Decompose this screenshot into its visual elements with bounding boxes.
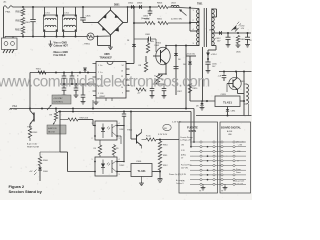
svg-text:NVM 754 SE: NVM 754 SE <box>27 147 40 149</box>
svg-text:Cabeza HOT: Cabeza HOT <box>54 45 69 48</box>
resistor R802 <box>21 18 24 26</box>
node rail right <box>189 7 191 9</box>
capacitor C810 <box>163 84 165 89</box>
resistor R908 <box>99 140 101 145</box>
ground bridge <box>110 46 112 48</box>
wire opto1 right <box>117 125 124 127</box>
wire R903 down <box>29 138 31 141</box>
svg-text:R805: R805 <box>157 19 163 21</box>
node W72 junctions <box>55 72 57 74</box>
svg-text:R9: R9 <box>50 115 52 117</box>
wire snubber row <box>134 22 145 24</box>
capacitor C825 <box>123 112 125 115</box>
ground C813 <box>247 43 249 45</box>
wire TL431 gnd <box>141 177 143 182</box>
wire T802 collector <box>165 46 167 49</box>
svg-text:Daiwoo D: Daiwoo D <box>176 183 184 185</box>
arrow to block2 <box>53 120 56 125</box>
resistor R808 <box>145 56 147 62</box>
wire opto2 to TL431 <box>117 171 131 173</box>
inductor L803 <box>171 5 179 7</box>
diode D894 <box>201 101 203 103</box>
node after diodes <box>149 6 151 8</box>
svg-text:R912: R912 <box>163 165 168 167</box>
optocoupler U901 <box>95 121 117 140</box>
wire bridge right to rail <box>123 22 128 24</box>
svg-text:T9: T9 <box>221 191 223 193</box>
svg-text:TL431: TL431 <box>223 101 232 105</box>
capacitor C815 <box>205 61 210 63</box>
wire rails into box <box>193 122 195 142</box>
svg-text:1: 1 <box>92 159 93 161</box>
ground C823 <box>75 94 77 96</box>
svg-text:13: 13 <box>121 71 123 73</box>
ground R812 <box>237 44 239 46</box>
wire +B vertical <box>189 56 191 101</box>
svg-text:C801: C801 <box>25 22 31 24</box>
svg-text:1: 1 <box>92 123 93 125</box>
svg-text:C806: C806 <box>143 16 149 18</box>
ground mains arrow <box>50 41 52 46</box>
svg-text:R806: R806 <box>157 3 163 5</box>
wire vsa drop <box>29 73 31 109</box>
node top-rail junctions <box>22 6 24 8</box>
svg-text:R802: R802 <box>16 21 22 23</box>
wire T906 base drop <box>130 112 132 140</box>
svg-text:Fusib: Fusib <box>146 136 151 138</box>
zener Z801 <box>133 23 135 44</box>
resistor R803 <box>21 27 24 35</box>
svg-text:T802: T802 <box>156 43 162 45</box>
capacitor C821 <box>71 73 73 77</box>
wire outlet feeds <box>4 37 6 39</box>
wire snubber to xfmr <box>168 22 190 24</box>
resistor R805 <box>158 21 168 24</box>
wire top rail <box>13 6 132 8</box>
svg-text:3: 3 <box>119 174 120 176</box>
svg-text:C805: C805 <box>86 16 92 18</box>
capacitor C806 <box>149 7 151 11</box>
svg-text:+ON: +ON <box>238 144 243 146</box>
svg-text:(+Vreg) +200: (+Vreg) +200 <box>181 139 192 142</box>
svg-text:Down: Down <box>236 172 241 174</box>
resistor R909 <box>113 144 115 145</box>
svg-text:D8: D8 <box>178 59 180 61</box>
fuse F801 <box>4 6 13 9</box>
svg-text:D8: D8 <box>183 64 185 66</box>
wire left vertical <box>3 7 5 38</box>
wire opto1 feed <box>60 119 68 121</box>
resistor R807 <box>147 38 149 43</box>
capacitor C801 <box>32 7 34 20</box>
wire T906 emitter <box>141 146 143 149</box>
svg-text:Fria COLD: Fria COLD <box>54 54 66 57</box>
svg-text:R911: R911 <box>163 155 167 157</box>
ground C809 <box>151 94 153 96</box>
label block remote <box>52 95 71 104</box>
capacitor C820 <box>63 73 65 77</box>
svg-text:VSA: VSA <box>12 105 17 108</box>
wire Q801 base <box>226 84 228 93</box>
capacitor C805 <box>82 7 84 18</box>
svg-text:9: 9 <box>122 93 123 95</box>
svg-text:2: 2 <box>92 138 93 140</box>
svg-text:3: 3 <box>119 138 120 140</box>
svg-text:R801: R801 <box>16 12 22 14</box>
wire U805 left input <box>30 72 96 74</box>
ground C824 <box>82 100 84 102</box>
resistor R912 <box>158 161 161 170</box>
svg-text:3.2V 3.0V: 3.2V 3.0V <box>158 134 168 136</box>
transistor Q801 <box>229 77 241 89</box>
thermistor TH801 <box>87 35 111 38</box>
wire secondary output <box>212 32 219 34</box>
svg-text:+B (5.5V): +B (5.5V) <box>186 54 195 56</box>
svg-text:Fuente Princ: Fuente Princ <box>181 164 192 167</box>
ground C812 <box>227 43 229 45</box>
wire TL431 feed <box>190 100 215 102</box>
capacitor C823 <box>75 84 77 88</box>
svg-text:A KEY IN: A KEY IN <box>48 127 57 130</box>
resistor R812 <box>236 36 239 44</box>
pin stubs U805 left <box>93 63 97 65</box>
diode D803 <box>139 5 142 9</box>
resistor R901 <box>38 71 46 74</box>
resistor R941 <box>72 109 74 112</box>
node oval <box>163 124 171 130</box>
winding L804 <box>243 72 245 113</box>
resistor R911 <box>158 151 161 160</box>
svg-text:R8: R8 <box>139 65 141 67</box>
svg-text:R9: R9 <box>116 148 118 150</box>
svg-text:TH801: TH801 <box>84 44 91 46</box>
svg-text:+C8: +C8 <box>218 76 222 78</box>
bridge rectifier D801 <box>98 10 123 35</box>
svg-text:+C814: +C814 <box>211 54 218 56</box>
label block key <box>47 125 66 134</box>
svg-text:C906: C906 <box>136 161 142 163</box>
transistor Q903 <box>33 113 35 122</box>
svg-text:R910: R910 <box>163 145 168 147</box>
node bottom-rail junctions <box>22 36 24 38</box>
resistor R903 <box>28 128 31 138</box>
pin stubs U805 right <box>126 63 130 65</box>
wire led chain top <box>40 151 60 153</box>
node rail2 <box>72 111 74 113</box>
svg-text:TRANS637: TRANS637 <box>100 57 113 60</box>
line filter choke L801 <box>44 15 58 32</box>
ground C815 <box>207 69 209 71</box>
capacitor C812 <box>227 33 229 37</box>
resistor R806 <box>158 5 168 8</box>
shunt regulator U903 TL431 <box>131 164 152 177</box>
wire conn gnd right <box>224 184 226 187</box>
node rail stb <box>29 108 31 110</box>
connector box BOARD DIGITAL <box>220 122 251 193</box>
svg-text:F801: F801 <box>6 12 12 14</box>
wire bridge bottom to ground <box>110 35 112 46</box>
line filter choke L802 <box>63 15 77 32</box>
connector box FUENTE SMPS <box>179 122 218 193</box>
wire U805 pin5 down <box>95 98 97 101</box>
wire T906 collector <box>141 129 143 133</box>
svg-text:R803: R803 <box>15 30 21 32</box>
arrow to block1 <box>47 105 52 110</box>
resistor R907 <box>68 118 78 121</box>
capacitor C824 <box>82 84 84 95</box>
capacitor C813 <box>247 33 249 37</box>
svg-text:A DIN: A DIN <box>227 130 233 133</box>
wire rail stb upper <box>10 108 194 110</box>
svg-text:5: 5 <box>98 93 99 95</box>
svg-text:C8: C8 <box>249 40 251 42</box>
wire primary snubber vertical <box>133 7 135 23</box>
wire long y115 <box>196 115 252 117</box>
svg-text:D801: D801 <box>114 5 120 7</box>
ground TL431 <box>141 182 143 184</box>
resistor R905 <box>55 109 57 113</box>
variable resistor VR801 <box>156 74 159 84</box>
svg-text:(COMO SH): (COMO SH) <box>171 19 182 21</box>
svg-text:D8: D8 <box>196 106 198 108</box>
wire U805 bottom stub <box>111 98 113 101</box>
svg-text:FUENTE: FUENTE <box>187 125 198 129</box>
wire conn gnd left <box>202 184 204 187</box>
resistor R804 <box>145 21 155 24</box>
svg-text:14: 14 <box>122 65 124 67</box>
wire xfmr sec top tap <box>212 8 217 10</box>
svg-text:R9: R9 <box>94 148 96 150</box>
svg-text:(DEL): (DEL) <box>181 155 186 157</box>
diode D806 <box>219 31 222 35</box>
pin 14 label xfmr <box>126 63 134 65</box>
svg-text:www.comunidadelectronicos.com: www.comunidadelectronicos.com <box>0 74 210 91</box>
wire +5.5 node <box>207 50 209 62</box>
wire to conn box <box>156 139 179 141</box>
wire TL431 right <box>240 100 244 102</box>
wire opto1 in <box>78 119 93 121</box>
svg-text:Vin: Vin <box>100 65 102 67</box>
svg-text:1: 1 <box>98 65 99 67</box>
svg-text:BLOCK: BLOCK <box>48 131 55 133</box>
diode D810 <box>188 62 192 65</box>
wire opto1 pin3 <box>117 135 121 137</box>
svg-text:T906: T906 <box>127 130 133 132</box>
svg-text:4: 4 <box>119 123 120 125</box>
diode D802 <box>128 6 131 8</box>
capacitor C816 <box>223 72 225 76</box>
svg-text:TL431: TL431 <box>137 169 146 173</box>
svg-text:D809: D809 <box>155 45 160 47</box>
svg-text:10k: 10k <box>151 41 154 43</box>
wire Q801 emitter <box>237 90 239 94</box>
wire U805 left lower <box>60 83 96 85</box>
svg-text:Z8: Z8 <box>127 40 129 42</box>
svg-text:A conecta: A conecta <box>176 179 184 182</box>
LED D906 <box>39 166 41 168</box>
diode D809 <box>155 39 157 47</box>
connector pins rows <box>190 141 246 143</box>
spark gap arrow <box>180 10 187 16</box>
diode D804 <box>175 46 177 54</box>
svg-text:D803: D803 <box>137 3 143 5</box>
diode D805 <box>83 68 87 70</box>
svg-text:SMPS: SMPS <box>189 129 197 133</box>
AC outlet plug <box>2 38 18 50</box>
svg-text:T801: T801 <box>197 3 203 6</box>
ground chain <box>159 177 161 179</box>
capacitor C809 <box>151 84 153 89</box>
resistor R910 <box>159 140 161 142</box>
resistor R801 <box>21 9 24 17</box>
wire sec lower tap <box>212 45 216 47</box>
wire bottom rail <box>22 34 24 37</box>
svg-text:12V ON: 12V ON <box>181 167 188 169</box>
wire left loop <box>59 112 61 153</box>
shunt regulator U806 TL431 <box>215 96 240 107</box>
wire opto2 right top <box>117 161 124 163</box>
ground U805 <box>95 101 97 103</box>
svg-text:+5V STBY: +5V STBY <box>53 98 63 100</box>
wire TL431 C906 right <box>152 171 160 173</box>
LED D807 <box>232 26 237 31</box>
resistor R809 <box>136 88 146 91</box>
wire sec mid rail <box>219 71 252 73</box>
capacitor C822 <box>63 84 65 88</box>
svg-text:Seccion Stand by: Seccion Stand by <box>9 189 43 194</box>
capacitor C808 <box>134 38 149 40</box>
svg-text:Power On (5V) 3.3V: Power On (5V) 3.3V <box>169 173 187 176</box>
polarized cap marker C814 <box>206 53 210 57</box>
op-amp U805 body <box>96 62 126 99</box>
svg-text:D802: D802 <box>128 3 134 5</box>
svg-text:4: 4 <box>119 159 120 161</box>
wire xfmr pin2 stub <box>189 7 191 31</box>
svg-text:LRAMP: LRAMP <box>99 95 106 98</box>
resistor R906 <box>38 157 41 166</box>
wire rail stb lower <box>58 111 191 113</box>
svg-text:BOARD DIGITAL: BOARD DIGITAL <box>221 125 241 129</box>
paper background <box>0 0 252 200</box>
wire chain bottom <box>159 170 161 177</box>
svg-text:R804: R804 <box>144 19 150 21</box>
svg-text:T9: T9 <box>199 191 201 193</box>
svg-text:D806: D806 <box>209 30 215 32</box>
wire ic gnd drop <box>92 100 94 109</box>
wire xfmr pin3 line <box>186 45 199 47</box>
wire T802 emitter <box>165 64 167 75</box>
ground D894 <box>201 106 203 108</box>
wire Q801 collector <box>236 72 238 78</box>
optocoupler U902 <box>95 157 117 176</box>
wire sec drop <box>202 47 204 101</box>
ground C810 <box>163 94 165 96</box>
svg-text:CONTROL: CONTROL <box>53 101 64 103</box>
resistor R820 <box>188 83 191 93</box>
ground C822 <box>63 94 65 96</box>
svg-text:A pin U der: A pin U der <box>27 143 38 146</box>
diode C894 <box>227 107 229 110</box>
wire rail to transformer <box>168 7 199 9</box>
